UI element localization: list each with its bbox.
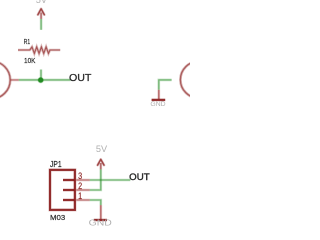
svg-text:OUT: OUT: [129, 172, 150, 183]
svg-text:OUT: OUT: [69, 73, 92, 84]
svg-text:R1: R1: [24, 39, 30, 46]
svg-text:JP1: JP1: [50, 160, 62, 169]
svg-text:GND: GND: [89, 218, 112, 228]
svg-text:1: 1: [78, 191, 82, 201]
svg-text:3: 3: [78, 171, 82, 181]
svg-text:2: 2: [78, 181, 82, 191]
svg-text:M03: M03: [50, 213, 65, 222]
svg-text:5V: 5V: [96, 144, 107, 154]
svg-text:GND: GND: [150, 101, 165, 108]
svg-text:10K: 10K: [24, 56, 36, 65]
svg-text:5V: 5V: [36, 0, 47, 5]
